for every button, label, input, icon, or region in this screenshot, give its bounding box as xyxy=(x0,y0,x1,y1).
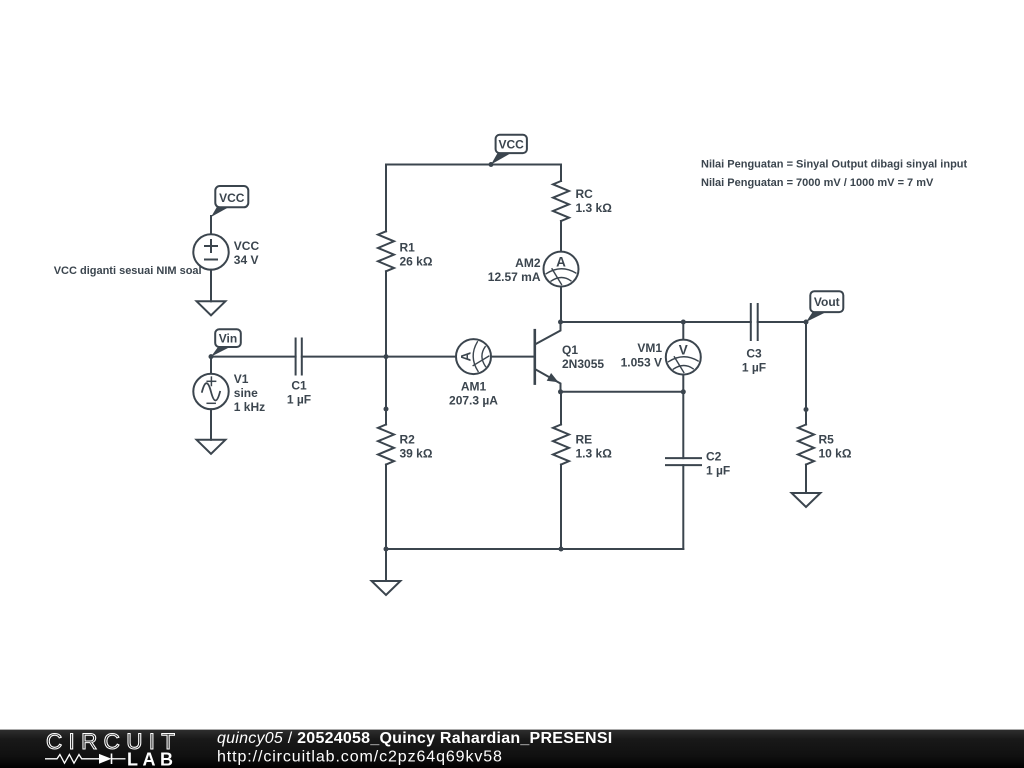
source VCC circle xyxy=(193,234,228,269)
wire: Vout node down to R5 xyxy=(805,322,807,410)
ground below VCC source xyxy=(197,301,226,315)
svg-text:VCC diganti sesuai NIM soal: VCC diganti sesuai NIM soal xyxy=(54,265,202,277)
flag Vout xyxy=(806,291,843,322)
svg-text:RE: RE xyxy=(576,433,593,447)
svg-text:C2: C2 xyxy=(706,450,722,464)
svg-text:A: A xyxy=(556,254,566,269)
svg-text:1.053 V: 1.053 V xyxy=(621,356,662,370)
label RE xyxy=(576,433,613,461)
label Q1 xyxy=(562,343,604,371)
label VCC source xyxy=(234,239,260,267)
voltmeter VM1 leads xyxy=(682,322,684,340)
node: Vout junction xyxy=(804,320,809,325)
svg-text:Nilai Penguatan = Sinyal Outpu: Nilai Penguatan = Sinyal Output dibagi s… xyxy=(701,159,968,171)
wire: VM1 bottom lead xyxy=(682,375,684,392)
svg-text:1 µF: 1 µF xyxy=(287,393,311,407)
label C3 xyxy=(742,346,766,374)
wire: Vin node to C1 xyxy=(211,356,296,358)
svg-text:34 V: 34 V xyxy=(234,253,259,267)
ammeter AM1 (rotated) xyxy=(456,339,491,374)
node: bus left junction xyxy=(384,547,389,552)
source VCC (V2) wire from flag xyxy=(210,216,212,235)
wire: R5 bottom lead xyxy=(805,465,807,494)
svg-text:Nilai Penguatan = 7000 mV / 10: Nilai Penguatan = 7000 mV / 1000 mV = 7 … xyxy=(701,177,934,189)
wire: collector rail to C3 xyxy=(561,321,751,323)
svg-text:sine: sine xyxy=(234,386,258,400)
wire: R5 top lead xyxy=(805,410,807,425)
wire: C2 bottom lead to bus xyxy=(682,465,684,549)
svg-text:VCC: VCC xyxy=(499,137,525,151)
svg-text:VCC: VCC xyxy=(234,239,260,253)
label R2 xyxy=(400,433,433,461)
wire: R2 bottom lead to bus xyxy=(385,465,387,550)
svg-text:V: V xyxy=(679,342,688,357)
svg-text:26 kΩ: 26 kΩ xyxy=(400,255,433,269)
svg-text:2N3055: 2N3055 xyxy=(562,357,604,371)
svg-text:1.3 kΩ: 1.3 kΩ xyxy=(576,447,613,461)
wire: base junction down to R2 xyxy=(385,357,387,409)
label VM1 xyxy=(621,341,663,370)
svg-text:V1: V1 xyxy=(234,372,249,386)
wire: C2 top lead xyxy=(682,392,684,458)
wire: AM2 bottom lead to collector node xyxy=(560,287,562,322)
wire: RE bottom lead to bus xyxy=(560,465,562,550)
wire: bus to center ground xyxy=(385,549,387,581)
wire: emitter rail xyxy=(561,391,684,393)
svg-text:1 µF: 1 µF xyxy=(742,360,766,374)
ground center xyxy=(372,581,401,595)
svg-text:R5: R5 xyxy=(819,433,835,447)
svg-text:R2: R2 xyxy=(400,433,416,447)
svg-text:C1: C1 xyxy=(291,379,307,393)
wire: bottom bus xyxy=(386,548,683,550)
wire: R1 bottom lead to base junction xyxy=(385,271,387,356)
capacitor C3 xyxy=(751,304,758,340)
transistor Q1 xyxy=(535,322,561,392)
node: VM1 top junction xyxy=(681,320,686,325)
node: R5 top terminal xyxy=(804,407,809,412)
label RC xyxy=(576,187,613,215)
node: bus RE junction xyxy=(559,547,564,552)
wire: R2 top lead xyxy=(385,409,387,425)
source V1 circle (sine) xyxy=(193,374,228,409)
svg-text:AM1: AM1 xyxy=(461,380,487,394)
node: C2 top junction xyxy=(681,389,686,394)
capacitor C2 xyxy=(666,458,701,465)
resistor R5 xyxy=(798,425,814,465)
svg-text:RC: RC xyxy=(576,187,594,201)
wire: C3 to Vout node xyxy=(758,321,806,323)
svg-text:1.3 kΩ: 1.3 kΩ xyxy=(576,201,613,215)
node: Vin junction xyxy=(209,354,214,359)
wire: RE top lead xyxy=(560,392,562,425)
svg-text:10 kΩ: 10 kΩ xyxy=(819,447,852,461)
node: VCC attach dot xyxy=(489,162,494,167)
node: collector junction xyxy=(558,320,563,325)
resistor R2 xyxy=(378,425,394,465)
svg-text:12.57 mA: 12.57 mA xyxy=(488,270,541,284)
flag VCC (top rail) xyxy=(491,135,527,165)
node: emitter junction xyxy=(558,389,563,394)
svg-text:R1: R1 xyxy=(400,241,416,255)
wire: base junction to AM1 xyxy=(386,356,456,358)
label C2 xyxy=(706,450,730,478)
ammeter AM2 xyxy=(544,252,579,287)
wire: top rail from R1 top to RC top corner xyxy=(386,164,561,166)
svg-text:AM2: AM2 xyxy=(515,256,541,270)
label AM1 xyxy=(449,380,498,408)
source V1 wire from Vin node xyxy=(210,357,212,374)
label R5 xyxy=(819,433,852,461)
svg-text:Q1: Q1 xyxy=(562,343,578,357)
label C1 xyxy=(287,379,311,407)
svg-text:quincy05 / 20524058_Quincy Rah: quincy05 / 20524058_Quincy Rahardian_PRE… xyxy=(217,730,612,747)
svg-text:Vin: Vin xyxy=(219,331,237,345)
flag VCC (top of source V2) xyxy=(211,186,248,217)
svg-text:1 µF: 1 µF xyxy=(706,464,730,478)
wire: V1 bottom lead xyxy=(210,409,212,440)
svg-text:207.3 µA: 207.3 µA xyxy=(449,394,498,408)
svg-text:39 kΩ: 39 kΩ xyxy=(400,447,433,461)
svg-text:http://circuitlab.com/c2pz64q6: http://circuitlab.com/c2pz64q69kv58 xyxy=(217,749,503,766)
wire: AM1 to Q1 base xyxy=(491,356,535,358)
svg-text:A: A xyxy=(459,351,474,361)
svg-text:1 kHz: 1 kHz xyxy=(234,400,265,414)
ground below V1 xyxy=(197,440,226,454)
resistor RC xyxy=(553,181,569,221)
logo squiggle: resistor + diode xyxy=(45,754,126,765)
wire: C1 to base junction xyxy=(302,356,386,358)
wire: RC bottom lead to AM2 xyxy=(560,221,562,252)
flag Vin xyxy=(211,329,241,356)
label R1 xyxy=(400,241,433,269)
svg-text:LAB: LAB xyxy=(127,750,178,768)
ground below R5 xyxy=(792,493,821,507)
voltmeter VM1 xyxy=(666,340,701,375)
svg-text:VM1: VM1 xyxy=(637,341,662,355)
wire: VCC source bottom lead xyxy=(210,270,212,302)
capacitor C1 xyxy=(296,339,302,375)
node: base junction xyxy=(384,354,389,359)
svg-text:Vout: Vout xyxy=(814,295,840,309)
wire: R1 top lead xyxy=(385,165,387,232)
resistor R1 xyxy=(378,231,394,271)
wire: RC top lead xyxy=(560,165,562,182)
svg-text:VCC: VCC xyxy=(219,191,245,205)
node: R2 top terminal xyxy=(384,407,389,412)
svg-text:C3: C3 xyxy=(746,346,762,360)
label V1 xyxy=(234,372,265,414)
label AM2 xyxy=(488,256,541,284)
resistor RE xyxy=(553,425,569,465)
